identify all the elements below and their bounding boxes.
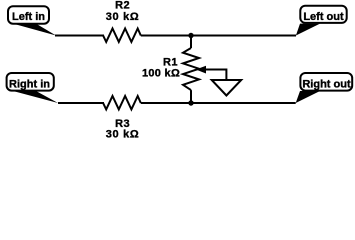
svg-text:30 kΩ: 30 kΩ <box>106 129 140 141</box>
flag Right in: box <box>7 73 54 91</box>
potentiometer R1 body <box>183 48 199 90</box>
svg-text:100 kΩ: 100 kΩ <box>142 68 180 80</box>
svg-text:Left in: Left in <box>12 11 45 23</box>
svg-text:30 kΩ: 30 kΩ <box>106 11 140 23</box>
ground symbol triangle <box>212 80 242 96</box>
flag Right out: box <box>300 73 352 91</box>
svg-text:Right out: Right out <box>302 79 351 91</box>
node junction bottom (right channel) <box>188 100 193 105</box>
flag Right out: tail <box>296 91 320 103</box>
wire top-left segment <box>55 35 104 37</box>
svg-text:R2: R2 <box>115 0 130 11</box>
resistor R3 body <box>103 96 141 109</box>
wire wiper horizontal <box>204 69 226 71</box>
node junction top (left channel) <box>188 33 193 38</box>
svg-text:R1: R1 <box>163 56 178 68</box>
potentiometer wiper arrowhead <box>196 66 206 74</box>
resistor R2 body <box>103 29 141 42</box>
wire pot bottom lead <box>190 90 192 103</box>
flag Right in: tail <box>13 91 58 103</box>
wire wiper drop to ground <box>225 69 227 81</box>
wire bottom-left segment <box>58 102 104 104</box>
flag Left in: box <box>8 6 49 24</box>
flag Left out: tail <box>296 24 320 36</box>
wire pot top lead <box>190 36 192 49</box>
svg-text:Right in: Right in <box>9 79 50 91</box>
wire top-right segment <box>141 35 296 37</box>
wire bottom-right segment <box>141 102 296 104</box>
flag Left in: tail <box>13 24 56 36</box>
svg-text:Left out: Left out <box>303 11 344 23</box>
flag Left out: box <box>300 6 346 23</box>
